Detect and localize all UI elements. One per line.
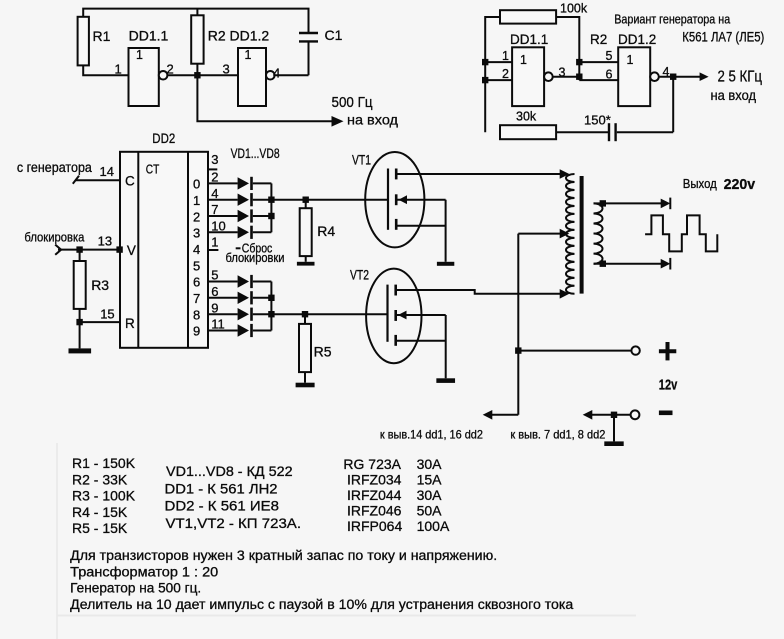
svg-text:30k: 30k: [516, 110, 537, 124]
svg-text:2: 2: [193, 209, 200, 224]
svg-text:R: R: [125, 316, 135, 331]
svg-text:на вход: на вход: [711, 87, 757, 103]
svg-text:12v: 12v: [659, 378, 678, 394]
svg-text:R1 - 150K: R1 - 150K: [72, 455, 136, 471]
svg-text:DD1 - К 561 ЛН2: DD1 - К 561 ЛН2: [165, 480, 278, 496]
svg-text:к выв.14 dd1, 16 dd2: к выв.14 dd1, 16 dd2: [380, 428, 483, 442]
svg-text:9: 9: [211, 300, 218, 315]
svg-text:7: 7: [193, 291, 200, 306]
svg-text:4: 4: [193, 242, 200, 257]
svg-text:DD2 - К 561 ИЕ8: DD2 - К 561 ИЕ8: [165, 497, 280, 513]
svg-text:DD1.2: DD1.2: [618, 32, 656, 47]
svg-text:7: 7: [211, 202, 218, 217]
svg-text:К561 ЛА7 (ЛЕ5): К561 ЛА7 (ЛЕ5): [682, 30, 764, 45]
svg-text:C: C: [125, 174, 135, 189]
svg-text:VT2: VT2: [350, 268, 369, 283]
svg-text:к выв. 7 dd1, 8 dd2: к выв. 7 dd1, 8 dd2: [510, 428, 605, 442]
svg-text:3: 3: [559, 66, 566, 80]
svg-text:0: 0: [193, 176, 200, 191]
svg-text:IRFZ046: IRFZ046: [347, 503, 402, 519]
svg-text:RG 723A: RG 723A: [343, 456, 401, 472]
svg-text:500 Гц: 500 Гц: [332, 95, 373, 111]
svg-text:6: 6: [211, 284, 218, 299]
svg-text:C1: C1: [325, 27, 343, 43]
svg-text:DD1.1: DD1.1: [510, 32, 548, 47]
svg-text:с генератора: с генератора: [17, 160, 92, 175]
svg-text:4: 4: [273, 66, 280, 81]
svg-text:1: 1: [627, 53, 634, 67]
svg-text:6: 6: [606, 68, 613, 82]
svg-text:V: V: [127, 243, 136, 258]
svg-text:VD1...VD8: VD1...VD8: [231, 146, 280, 161]
svg-text:IRFP064: IRFP064: [347, 518, 402, 534]
svg-text:IRFZ034: IRFZ034: [347, 472, 402, 488]
svg-text:на вход: на вход: [347, 112, 398, 128]
svg-text:3: 3: [211, 152, 218, 167]
svg-text:R2: R2: [590, 32, 607, 47]
svg-text:R2: R2: [208, 28, 226, 44]
svg-text:VT1,VT2 - КП 723А.: VT1,VT2 - КП 723А.: [166, 515, 302, 531]
svg-text:R3 - 100K: R3 - 100K: [72, 488, 136, 504]
svg-text:14: 14: [100, 164, 114, 179]
svg-text:R4 - 15K: R4 - 15K: [72, 504, 128, 520]
svg-text:2: 2: [167, 62, 174, 77]
svg-text:R1: R1: [93, 28, 111, 44]
svg-text:Генератор на 500 гц.: Генератор на 500 гц.: [70, 581, 201, 596]
svg-text:1: 1: [115, 62, 122, 77]
svg-text:блокировки: блокировки: [226, 251, 285, 265]
svg-text:6: 6: [193, 275, 200, 290]
svg-text:CT: CT: [146, 162, 160, 177]
svg-text:Для транзисторов нужен 3 кратн: Для транзисторов нужен 3 кратный запас п…: [70, 548, 497, 563]
svg-text:4: 4: [211, 186, 218, 201]
svg-text:11: 11: [211, 317, 225, 332]
svg-text:5: 5: [193, 258, 200, 273]
svg-text:R5 - 15K: R5 - 15K: [72, 520, 128, 536]
svg-text:13: 13: [98, 234, 112, 249]
svg-text:15A: 15A: [417, 472, 443, 488]
svg-text:IRFZ044: IRFZ044: [347, 487, 402, 503]
svg-text:VD1...VD8 - КД 522: VD1...VD8 - КД 522: [166, 463, 293, 479]
svg-text:DD1.1: DD1.1: [129, 28, 169, 44]
svg-text:блокировка: блокировка: [24, 230, 85, 245]
svg-text:Делитель на 10 дает импульс с: Делитель на 10 дает импульс с паузой в 1…: [70, 597, 574, 612]
svg-text:100k: 100k: [560, 2, 588, 16]
svg-text:100A: 100A: [417, 518, 450, 534]
svg-text:Трансформатор 1 : 20: Трансформатор 1 : 20: [70, 564, 218, 579]
svg-text:4: 4: [663, 65, 670, 79]
svg-text:VT1: VT1: [352, 153, 371, 168]
svg-text:DD1.2: DD1.2: [230, 28, 270, 44]
svg-text:1: 1: [245, 48, 252, 62]
svg-text:1: 1: [193, 193, 200, 208]
svg-text:DD2: DD2: [152, 130, 175, 146]
svg-text:R5: R5: [314, 343, 332, 359]
svg-text:R2 - 33K: R2 - 33K: [72, 471, 128, 487]
svg-text:2: 2: [502, 67, 509, 81]
svg-text:1: 1: [520, 53, 527, 67]
svg-text:1: 1: [211, 235, 218, 250]
svg-text:30A: 30A: [417, 456, 443, 472]
svg-text:2: 2: [211, 170, 218, 185]
svg-text:R3: R3: [91, 277, 109, 293]
svg-text:1: 1: [136, 48, 143, 62]
svg-text:150*: 150*: [584, 113, 611, 128]
svg-text:5: 5: [211, 268, 218, 283]
svg-text:8: 8: [193, 307, 200, 322]
svg-text:50A: 50A: [417, 503, 443, 519]
svg-text:3: 3: [223, 62, 230, 77]
svg-text:R4: R4: [317, 223, 335, 239]
svg-text:2 5 КГц: 2 5 КГц: [718, 69, 763, 86]
svg-text:10: 10: [211, 218, 225, 233]
svg-text:30A: 30A: [417, 487, 443, 503]
svg-text:Выход: Выход: [683, 177, 718, 191]
svg-text:220v: 220v: [724, 176, 756, 193]
svg-text:15: 15: [100, 307, 114, 322]
svg-text:9: 9: [193, 324, 200, 339]
svg-text:Вариант генератора на: Вариант генератора на: [614, 13, 730, 27]
svg-text:3: 3: [193, 226, 200, 241]
svg-text:5: 5: [606, 49, 613, 63]
svg-text:1: 1: [502, 49, 509, 63]
